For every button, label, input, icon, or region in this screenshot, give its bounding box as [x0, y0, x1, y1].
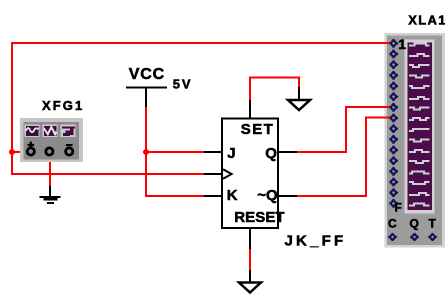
digital ground symbol (bottom, on RESET net)	[239, 283, 261, 293]
pin number 1	[398, 36, 406, 52]
pin label J	[227, 145, 235, 162]
svg-text:J: J	[227, 145, 235, 162]
svg-text:VCC: VCC	[129, 66, 165, 83]
XFG1 square-wave button icon	[61, 125, 76, 138]
junction at (12,152)	[9, 149, 15, 155]
XFG1 sine-wave button icon	[25, 125, 40, 138]
XLA1 T terminal	[428, 233, 437, 241]
XFG1 common terminal	[46, 148, 53, 155]
label Q (clock qualifier)	[410, 217, 419, 231]
function generator XFG1 body	[20, 118, 83, 162]
svg-text:K: K	[227, 187, 238, 204]
wire: Q output to XLA1 channel 7	[279, 107, 391, 152]
wire: VCC to K pin segment	[145, 195, 221, 197]
XLA1 C terminal	[388, 233, 397, 241]
svg-text:1: 1	[398, 36, 406, 52]
wire: ~Q output to XLA1 channel 8	[279, 118, 391, 196]
svg-text:T: T	[429, 217, 437, 231]
value label 5V	[173, 77, 193, 92]
label XFG1	[42, 98, 84, 113]
wire: SET pin to digital ground	[250, 78, 299, 119]
logic analyzer XLA1 body	[385, 33, 445, 248]
svg-text:XLA1: XLA1	[408, 13, 445, 28]
wire: red stub into XLA1 channel 1	[384, 42, 392, 44]
svg-text:XFG1: XFG1	[42, 98, 84, 113]
label T (trigger)	[429, 217, 437, 231]
svg-text:F: F	[395, 201, 402, 215]
wire: left vertical segment x=12	[11, 42, 13, 175]
pin label ~Q	[257, 187, 278, 204]
wire: XFG1 common terminal to ground	[49, 155, 51, 196]
pin label RESET	[234, 209, 285, 226]
XLA1 Q terminal	[410, 233, 419, 241]
digital ground symbol (top, on SET net)	[288, 100, 310, 110]
svg-text:C: C	[388, 217, 397, 231]
wire: XFG1 plus-terminal stub	[11, 151, 28, 153]
svg-text:Q: Q	[410, 217, 419, 231]
XFG1 triangle-wave button icon	[43, 125, 58, 138]
junction at (146,152)	[143, 149, 149, 155]
wire: RESET pin to digital ground	[249, 229, 251, 282]
XLA1 channel traces	[409, 44, 430, 206]
label VCC	[129, 66, 165, 83]
label XLA1	[408, 13, 445, 28]
wire: clock horizontal segment y=174	[11, 173, 221, 175]
analog ground symbol (below XFG1)	[40, 196, 61, 204]
svg-text:~Q: ~Q	[257, 187, 278, 204]
pin label Q	[265, 145, 277, 162]
U1 clock edge-triangle	[223, 169, 232, 178]
XFG1 plus terminal	[27, 142, 34, 155]
svg-text:SET: SET	[241, 121, 274, 138]
wire: VCC to J pin segment	[146, 151, 221, 153]
wire: red stub into XLA1 channel 7	[384, 106, 392, 108]
XLA1 input terminals (16 channels)	[389, 39, 398, 208]
svg-text:Q: Q	[265, 145, 277, 162]
label C	[388, 217, 397, 231]
svg-text:RESET: RESET	[234, 209, 285, 226]
JK flip-flop U1 box	[222, 119, 278, 229]
wire: net XFG1+ to U1 clock and XLA1 ch1, top horizontal segment	[11, 42, 391, 44]
XLA1 screen	[408, 43, 432, 211]
power symbol VCC	[126, 87, 167, 89]
XFG1 minus terminal	[66, 144, 73, 155]
pin label K	[227, 187, 238, 204]
wire: VCC vertical segment	[145, 87, 147, 197]
wire: red stub into XLA1 channel 8	[384, 117, 392, 119]
label F	[395, 201, 402, 215]
XLA1 screen bezel	[405, 40, 435, 214]
svg-text:5V: 5V	[173, 77, 193, 92]
svg-text:JK_FF: JK_FF	[285, 233, 347, 250]
label JK_FF	[285, 233, 347, 250]
pin label SET	[241, 121, 274, 138]
